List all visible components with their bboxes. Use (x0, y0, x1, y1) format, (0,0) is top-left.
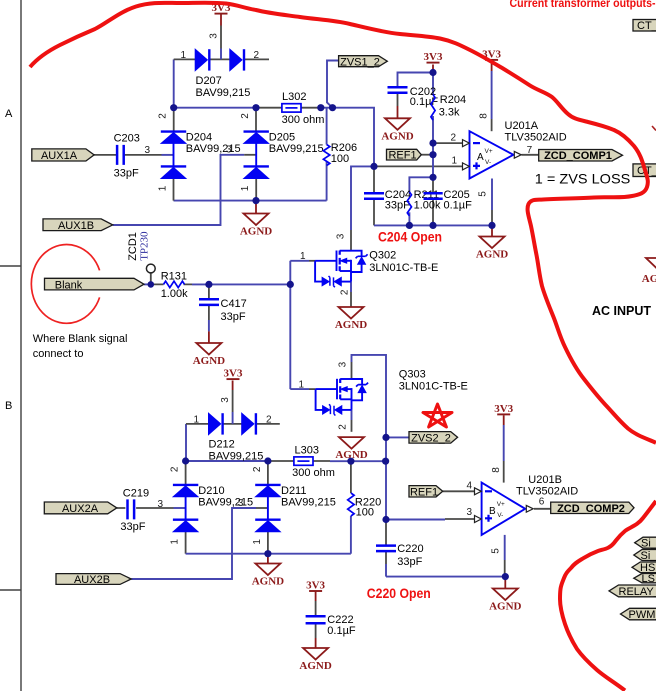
wire ZVS node to Q302 drain (351, 166, 374, 230)
wire opamp B output (534, 508, 551, 510)
wire D212 pin1 down to rail (185, 424, 187, 461)
resistor R131 (161, 271, 188, 300)
svg-text:U201B: U201B (528, 474, 562, 486)
junction pin3 node B (382, 516, 389, 523)
svg-text:LS: LS (642, 573, 655, 585)
wire R204 column (432, 73, 434, 178)
svg-text:C220: C220 (397, 543, 423, 555)
node AUX2A (44, 502, 117, 515)
wire 3V3 stem R204 (432, 65, 434, 73)
wire net AUX2B riser to D211 pin3 (131, 508, 256, 579)
svg-text:3V3: 3V3 (224, 368, 243, 380)
svg-text:RELAY_: RELAY_ (619, 586, 656, 598)
wire R131 to gate trunk (192, 283, 290, 285)
svg-text:AC INPUT: AC INPUT (592, 304, 651, 318)
wire 3V3 stem D207 (220, 14, 222, 26)
svg-text:1: 1 (194, 414, 200, 425)
capacitor C219 (120, 487, 163, 533)
node LS (cut at edge) (634, 573, 656, 585)
wire C222 column (315, 591, 317, 601)
svg-text:3: 3 (467, 507, 473, 518)
svg-text:1: 1 (158, 185, 169, 191)
capacitor C220 (376, 543, 424, 568)
wire opamp B pin5 (504, 535, 506, 560)
wire C203 to D204 pin3 tap (162, 154, 174, 156)
node ZVS2_2 (409, 432, 458, 445)
diode D205 (dual, BAV99,215) (226, 113, 324, 192)
node AUX2B (56, 574, 131, 587)
junction bottom rail R211 (406, 222, 413, 229)
svg-text:PWM_: PWM_ (629, 609, 656, 621)
svg-text:2: 2 (338, 424, 349, 430)
junction bottom rail pin5 (488, 222, 495, 229)
power 3V3 above C222 (306, 579, 325, 591)
svg-text:2: 2 (266, 414, 272, 425)
transistor Q303 3LN01C-TB-E (299, 361, 468, 429)
svg-text:4: 4 (467, 481, 473, 492)
junction R211 C205 (429, 174, 436, 181)
capacitor C203 (114, 133, 151, 180)
junction Blank testpoint (148, 281, 155, 288)
svg-text:0.1µF: 0.1µF (327, 625, 356, 637)
svg-text:BAV99,215: BAV99,215 (281, 496, 336, 508)
svg-text:3: 3 (335, 233, 346, 239)
junction bottom rail C205 (429, 222, 436, 229)
wire rail B (186, 460, 268, 462)
resistor R220 (348, 493, 381, 518)
wire D204 pin1 stub (173, 179, 175, 201)
wire D205 pin2 stub (255, 108, 257, 132)
wire D211 ground AGND stem (267, 554, 269, 564)
svg-text:3: 3 (238, 498, 244, 509)
junction R131 C417 (205, 281, 212, 288)
svg-text:3: 3 (220, 397, 231, 403)
wire opamp A pin5 (491, 179, 493, 211)
svg-text:1: 1 (252, 539, 263, 545)
svg-text:3.3k: 3.3k (439, 106, 460, 118)
svg-text:V-: V- (485, 159, 491, 166)
wire D204 pin2 stub (173, 108, 175, 132)
wire D210 pin1 stub (185, 532, 187, 554)
ground AGND below D205 rail (240, 214, 272, 238)
diode D211 (dual, BAV99,215) (238, 466, 336, 545)
svg-text:1: 1 (299, 379, 305, 390)
svg-text:Si_G: Si_G (641, 538, 656, 550)
svg-text:L303: L303 (295, 444, 319, 456)
svg-text:3: 3 (209, 33, 220, 39)
svg-text:2: 2 (451, 132, 457, 143)
svg-text:C417: C417 (221, 298, 247, 310)
annotation red mark right edge (652, 126, 656, 131)
svg-text:TLV3502AID: TLV3502AID (505, 131, 567, 143)
capacitor C202 (388, 86, 439, 108)
node RELAY (cut at edge) (609, 585, 656, 598)
resistor R204 (431, 94, 466, 120)
wire D207 center stub (210, 58, 230, 60)
svg-text:AUX2B: AUX2B (74, 574, 110, 586)
svg-text:33pF: 33pF (385, 199, 410, 211)
svg-text:1.00k: 1.00k (414, 199, 441, 211)
wire R220 bottom (350, 516, 352, 554)
node CT_ (cut at edge) (633, 164, 656, 177)
ground AGND partial right edge (642, 258, 656, 285)
node REF1 (channel A) (387, 149, 422, 161)
svg-text:C219: C219 (123, 487, 149, 499)
ground AGND below D211 rail (252, 564, 284, 588)
testpoint ZCD1 TP230 (127, 231, 155, 273)
svg-text:REF1: REF1 (410, 486, 438, 498)
svg-text:100: 100 (331, 153, 349, 165)
svg-text:33pF: 33pF (397, 556, 422, 568)
capacitor C205 (424, 189, 473, 212)
svg-text:AUX2A: AUX2A (62, 503, 99, 515)
svg-text:3: 3 (145, 145, 151, 156)
svg-text:C222: C222 (327, 614, 353, 626)
svg-text:2: 2 (254, 50, 260, 61)
wire ground rail A under D204 D205 (174, 200, 327, 202)
svg-text:BAV99,215: BAV99,215 (209, 450, 264, 462)
svg-text:V+: V+ (497, 501, 505, 508)
svg-text:BAV99,215: BAV99,215 (269, 143, 324, 155)
svg-text:D211: D211 (281, 485, 306, 497)
wire Q303 source pin2 (351, 410, 353, 420)
transistor Q302 3LN01C-TB-E (300, 233, 438, 295)
node Si_G second (cut at edge) (634, 550, 656, 562)
wire opamp A pin8 (491, 60, 493, 71)
svg-text:connect to: connect to (33, 348, 84, 360)
power 3V3 above D212 (224, 368, 243, 380)
wire R131 stubs (151, 283, 192, 285)
node CT_S (cut at edge) (633, 20, 656, 33)
svg-text:2: 2 (158, 113, 169, 119)
node ZCD_COMP1 (539, 150, 623, 163)
svg-text:U201A: U201A (505, 120, 539, 132)
svg-text:Q303: Q303 (399, 368, 426, 380)
svg-text:B: B (5, 400, 12, 412)
junction REF1 A (429, 151, 436, 158)
svg-text:ZVS2_2: ZVS2_2 (411, 432, 451, 444)
svg-text:8: 8 (491, 467, 502, 473)
svg-text:A: A (477, 152, 484, 163)
svg-text:B: B (489, 506, 496, 517)
wire Q302 source pin2 (350, 282, 352, 292)
wire C205 column (432, 177, 434, 225)
wire ground rail B under D210 D211 (186, 553, 351, 555)
capacitor C204 (364, 189, 411, 212)
svg-text:3V3: 3V3 (494, 403, 513, 415)
junction rail B at D211 (264, 457, 271, 464)
wire C202 bottom to AGND (397, 93, 399, 106)
wire gate trunk vertical (289, 261, 291, 389)
diode D207 (dual, BAV99,215) (181, 33, 260, 99)
ground AGND below C222 (299, 648, 331, 672)
annotation red circle around Blank (31, 245, 99, 324)
wire D212 center stub (223, 423, 242, 425)
wire opamp B AGND stem (504, 577, 506, 589)
wire net AUX2A to C219 (117, 507, 174, 509)
wire rail A L302 node (174, 107, 256, 109)
wire opamp A output (522, 154, 539, 156)
junction rail A at D204 (170, 104, 177, 111)
wire net AUX1A to C203 (94, 154, 162, 156)
svg-text:Si_G: Si_G (641, 550, 656, 562)
wire D211 pin2 stub (267, 461, 269, 485)
svg-text:300 ohm: 300 ohm (292, 467, 335, 479)
wire ZVS2_2 trunk (385, 437, 387, 519)
svg-text:8: 8 (479, 113, 490, 119)
node ZCD_COMP2 (551, 502, 634, 515)
ground AGND below C417 (193, 343, 225, 367)
wire C202 top (398, 73, 434, 88)
wire D207 pin2 stub (245, 58, 270, 60)
svg-text:TP230: TP230 (138, 231, 150, 261)
svg-text:3: 3 (226, 145, 232, 156)
svg-text:100: 100 (356, 506, 374, 518)
wire Q302 gate stub (290, 260, 309, 262)
svg-text:A: A (5, 108, 13, 120)
svg-text:L302: L302 (282, 91, 306, 103)
wire D207 pin1 stub (174, 58, 196, 60)
svg-text:AUX1B: AUX1B (58, 220, 94, 232)
wire D207 pin1 down to rail (173, 59, 175, 107)
svg-text:ZCD_COMP1: ZCD_COMP1 (544, 150, 612, 162)
node PWM (cut at edge) (621, 608, 656, 621)
junction rail B at D210 (182, 457, 189, 464)
wire C417 column (208, 284, 210, 299)
svg-text:3V3: 3V3 (424, 51, 443, 63)
wire D205 ground AGND stem (255, 201, 257, 214)
wire testpoint ZCD1 drop (150, 273, 152, 284)
junction L302 out (317, 104, 324, 111)
wire net AUX1B riser to D205 pin3 (113, 155, 245, 225)
wire R206 stem (326, 108, 328, 201)
svg-text:7: 7 (527, 145, 533, 156)
svg-text:C220 Open: C220 Open (367, 586, 431, 601)
wire REF1 B stub pin4 (443, 490, 475, 492)
junction node pin1 C204 (370, 163, 377, 170)
svg-text:1: 1 (181, 50, 187, 61)
junction gate trunk (287, 281, 294, 288)
inductor L302 (282, 91, 325, 126)
svg-text:BAV99,215: BAV99,215 (198, 496, 253, 508)
wire D212 pin1 stub (186, 423, 209, 425)
svg-text:2: 2 (339, 289, 350, 295)
svg-text:CT_S: CT_S (637, 20, 656, 32)
junction ground rail at D205 (252, 197, 259, 204)
svg-text:5: 5 (478, 191, 489, 197)
node Blank (45, 278, 145, 291)
svg-text:V-: V- (497, 512, 503, 519)
junction ZVS2_2 label node (382, 434, 389, 441)
junction ZVS1_2 drop (329, 104, 336, 111)
svg-text:D205: D205 (269, 132, 295, 144)
svg-text:R131: R131 (161, 271, 187, 283)
svg-text:AGND: AGND (642, 273, 656, 285)
wire R211 bottom stub (408, 212, 410, 225)
svg-text:3V3: 3V3 (306, 579, 325, 591)
diode D204 (dual, BAV99,215) (158, 113, 241, 192)
junction rail A at D205 (252, 104, 259, 111)
power 3V3 above D207 (212, 2, 231, 14)
junction 3V3 R204 C202 (429, 69, 436, 76)
svg-text:3: 3 (158, 499, 164, 510)
resistor R206 (323, 142, 357, 166)
op-amp U201B TLV3502AID (467, 467, 579, 554)
wire net ZVS1_2 label drop (327, 61, 339, 108)
svg-text:BAV99,215: BAV99,215 (186, 143, 241, 155)
svg-text:Current transformer outputs-: Current transformer outputs- (510, 0, 656, 10)
svg-text:3LN01C-TB-E: 3LN01C-TB-E (399, 381, 468, 393)
svg-text:6: 6 (539, 496, 545, 507)
wire bottom rail B (386, 576, 505, 578)
svg-text:1: 1 (452, 156, 458, 167)
svg-text:1: 1 (300, 251, 306, 262)
svg-text:1.00k: 1.00k (161, 288, 188, 300)
svg-text:D212: D212 (209, 439, 235, 451)
svg-text:1 = ZVS LOSS: 1 = ZVS LOSS (535, 170, 631, 186)
capacitor C417 (199, 298, 247, 323)
svg-text:33pF: 33pF (114, 168, 139, 180)
annotation red freehand region curve (30, 3, 656, 443)
svg-text:D210: D210 (198, 485, 224, 497)
annotation red star (423, 404, 452, 427)
svg-text:0.1µF: 0.1µF (444, 199, 473, 211)
wire D211 pin1 stub (267, 532, 269, 554)
junction ground rail B at D211 (264, 550, 271, 557)
svg-text:3LN01C-TB-E: 3LN01C-TB-E (369, 262, 438, 274)
svg-text:C203: C203 (114, 133, 140, 145)
wire C219 to D210 pin3 tap (174, 507, 186, 509)
ground AGND Q302 source (335, 307, 367, 331)
power 3V3 above R204 C202 (424, 51, 443, 63)
op-amp U201A TLV3502AID (451, 113, 567, 197)
svg-text:V+: V+ (485, 148, 493, 155)
junction bottom rail B pin5 (502, 573, 509, 580)
wire Q303 drain to ZVS2_2 node (351, 362, 353, 379)
svg-text:33pF: 33pF (120, 521, 145, 533)
inductor L303 (292, 444, 335, 479)
ground AGND opamp B pin5 (489, 589, 521, 613)
wire R211 top stub (409, 177, 433, 192)
wire Blank to testpoint node (144, 283, 151, 285)
svg-text:300 ohm: 300 ohm (282, 114, 325, 126)
svg-text:AUX1A: AUX1A (41, 150, 78, 162)
svg-text:Where Blank signal: Where Blank signal (33, 333, 128, 345)
svg-text:ZCD1: ZCD1 (127, 232, 139, 261)
sheet frame border (0, 0, 21, 691)
svg-text:5: 5 (490, 548, 501, 554)
svg-text:33pF: 33pF (221, 311, 246, 323)
node AUX1B (43, 219, 113, 232)
wire ZVS2_2 label stub (386, 436, 409, 438)
wire bottom rail A (374, 224, 492, 226)
junction rail B at R220 (347, 458, 354, 465)
node ZVS1_2 (339, 56, 388, 69)
wire opamp pin2 stub (433, 142, 463, 144)
svg-text:2: 2 (240, 113, 251, 119)
power 3V3 opamp A pin8 (482, 48, 501, 60)
svg-text:1: 1 (240, 185, 251, 191)
node HS (cut at edge) (632, 562, 656, 574)
wire D205 pin1 stub (255, 179, 257, 201)
svg-text:1: 1 (170, 539, 181, 545)
wire C204 column (373, 166, 375, 225)
annotation red curve lower S part (560, 501, 656, 691)
svg-text:R204: R204 (440, 94, 466, 106)
svg-text:C204 Open: C204 Open (378, 230, 442, 245)
wire opamp A pin5 AGND stem (491, 225, 493, 236)
power 3V3 opamp B pin8 (494, 403, 513, 415)
svg-text:TLV3502AID: TLV3502AID (516, 486, 578, 498)
ground AGND below C202 (381, 118, 413, 142)
junction rail B at trunk (382, 458, 389, 465)
wire R220 stem (350, 461, 352, 493)
svg-text:2: 2 (252, 466, 263, 472)
svg-text:Blank: Blank (55, 279, 83, 291)
svg-text:D204: D204 (186, 132, 212, 144)
wire D212 pin2 stub (256, 423, 280, 425)
resistor R211 (407, 189, 441, 216)
diode D210 (dual, BAV99,215) (170, 466, 254, 545)
wire 3V3 stem D212 (232, 381, 234, 391)
wire D210 pin2 stub (185, 461, 187, 485)
svg-text:ZCD_COMP2: ZCD_COMP2 (557, 503, 625, 515)
diode D212 (dual, BAV99,215) (194, 397, 273, 463)
ground AGND Q303 source (335, 437, 367, 461)
svg-text:2: 2 (170, 466, 181, 472)
ground AGND opamp A pin5 (476, 237, 508, 261)
node REF1 (channel B) (409, 486, 443, 499)
wire opamp B pin8 (503, 415, 505, 425)
wire opamp B pin3 net (386, 519, 445, 521)
svg-text:D207: D207 (196, 75, 222, 87)
svg-text:BAV99,215: BAV99,215 (196, 87, 251, 99)
node AUX1A (32, 149, 94, 162)
svg-text:Q302: Q302 (369, 249, 396, 261)
wire Q303 gate stub (290, 388, 309, 390)
capacitor C222 (306, 614, 356, 637)
svg-text:3: 3 (338, 361, 349, 367)
svg-text:ZVS1_2: ZVS1_2 (340, 56, 380, 68)
svg-text:REF1: REF1 (388, 150, 416, 162)
wire REF1 stub (421, 154, 433, 156)
junction pin2 R204 (429, 140, 436, 147)
node Si_G (cut at edge) (635, 537, 656, 549)
wire opamp pin1 net (374, 165, 463, 167)
